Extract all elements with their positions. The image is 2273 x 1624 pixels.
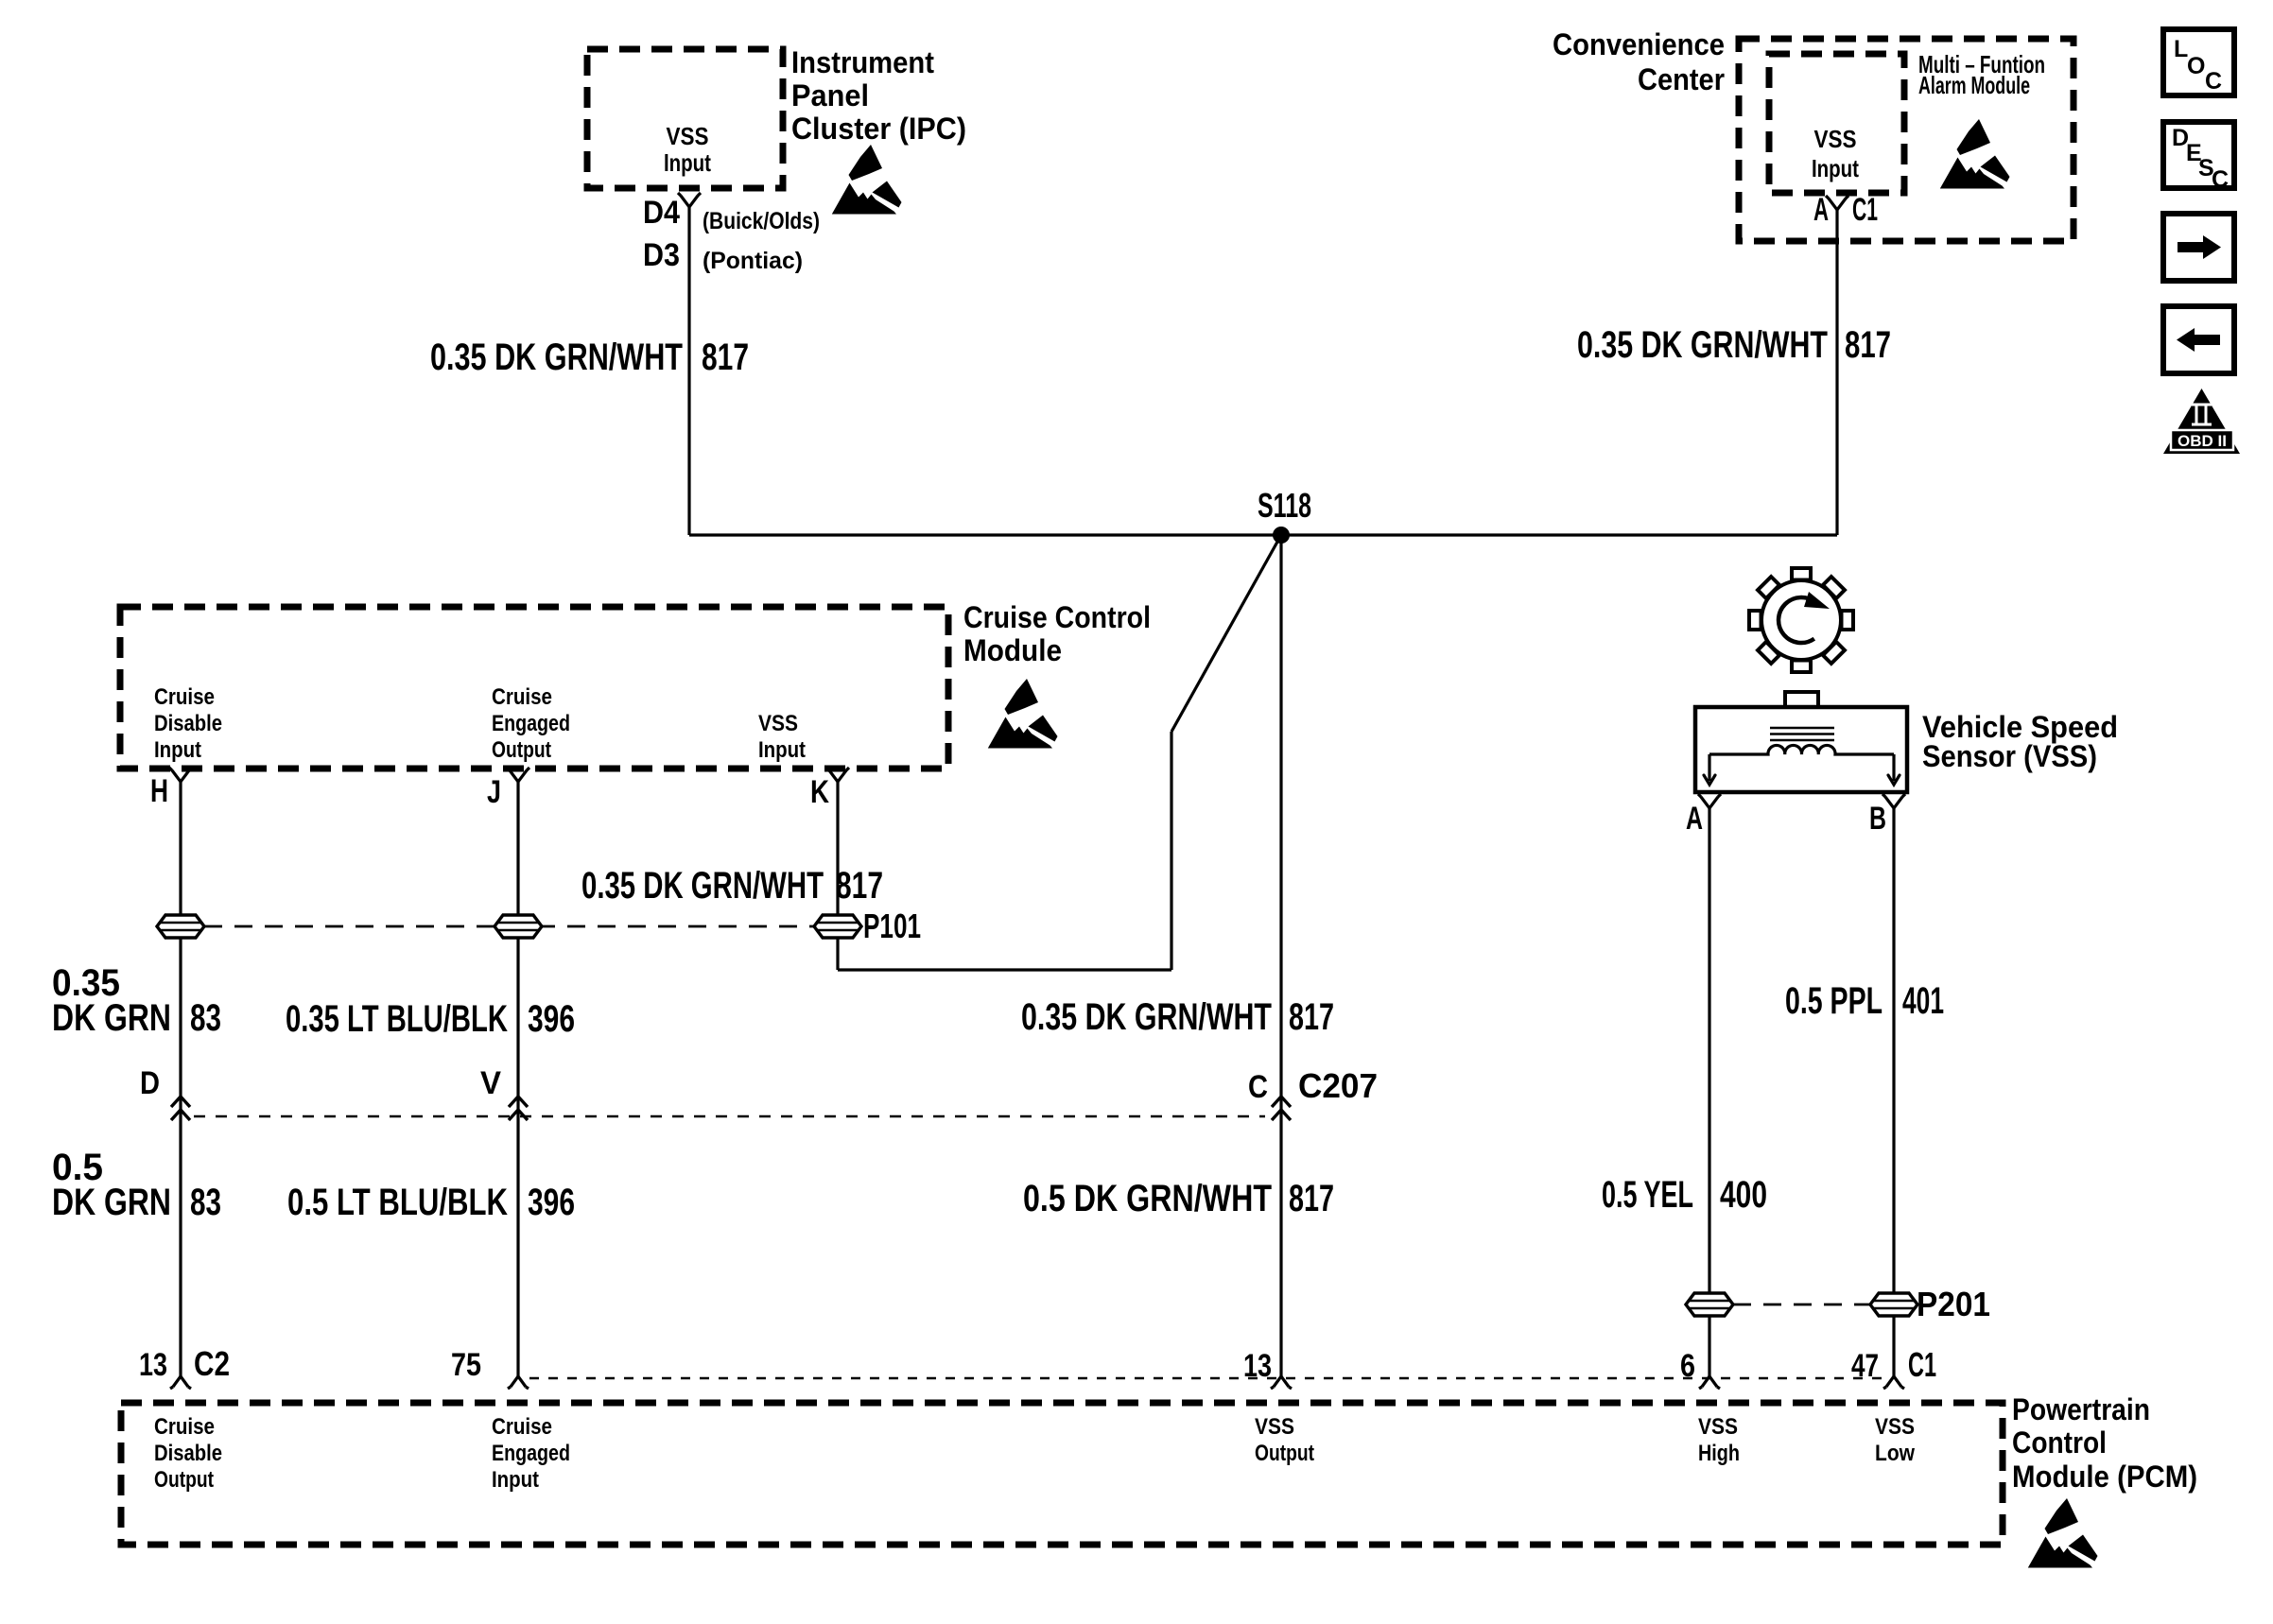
svg-text:Powertrain: Powertrain <box>2012 1392 2150 1426</box>
wire: convenience center pin A down to bus <box>1835 210 1838 535</box>
coil of VSS <box>1709 745 1894 754</box>
node: splice S118 <box>1273 527 1290 544</box>
svg-text:C207: C207 <box>1298 1066 1378 1105</box>
wire label: 0.35 DK GRN/WHT 817 (right) <box>1577 324 1891 366</box>
legend icon: OBD II triangle <box>2163 389 2240 454</box>
svg-text:0.5 DK GRN/WHT: 0.5 DK GRN/WHT <box>1023 1178 1272 1219</box>
svg-text:C1: C1 <box>1908 1345 1936 1384</box>
svg-text:C1: C1 <box>1852 192 1878 228</box>
wire: VSS A column (VSS high) <box>1708 808 1710 1376</box>
connector P201 at A <box>1686 1293 1733 1316</box>
wire: vertical riser of cruise VSS branch <box>1170 732 1172 970</box>
svg-text:83: 83 <box>190 1182 221 1223</box>
svg-text:75: 75 <box>451 1347 481 1383</box>
svg-text:P201: P201 <box>1917 1285 1990 1323</box>
connector P201 at B <box>1870 1293 1917 1316</box>
title: Cruise Control Module <box>963 600 1151 667</box>
svg-text:Center: Center <box>1638 62 1725 96</box>
pin K of cruise module <box>826 768 849 782</box>
esd symbol: IPC <box>832 145 902 215</box>
label: VSS Output <box>1255 1414 1314 1466</box>
svg-text:Input: Input <box>758 737 806 763</box>
svg-text:396: 396 <box>528 998 575 1040</box>
svg-text:Cruise: Cruise <box>154 1414 215 1440</box>
svg-text:C2: C2 <box>194 1344 230 1383</box>
svg-text:V: V <box>480 1065 501 1101</box>
pin B of VSS <box>1883 794 1905 808</box>
svg-text:D3: D3 <box>643 237 680 273</box>
pin 75 of PCM <box>508 1376 529 1389</box>
stem between gear and VSS sensor body <box>1785 692 1818 711</box>
wire: H column (cruise disable) <box>179 782 182 1376</box>
label: IPC VSS Input <box>664 122 711 177</box>
svg-text:Output: Output <box>1255 1441 1314 1466</box>
svg-text:Input: Input <box>154 737 201 763</box>
title: Multi-Funtion Alarm Module <box>1918 50 2045 99</box>
svg-text:0.35 LT BLU/BLK: 0.35 LT BLU/BLK <box>286 998 508 1040</box>
svg-text:Input: Input <box>664 148 711 177</box>
svg-text:P101: P101 <box>863 907 921 945</box>
label: Cruise Disable Output <box>154 1414 222 1493</box>
pin D4 of IPC <box>678 193 701 207</box>
svg-text:D: D <box>140 1065 160 1101</box>
label: cruise VSS Input <box>758 711 806 763</box>
svg-text:817: 817 <box>836 865 883 907</box>
title: Convenience Center <box>1553 27 1725 96</box>
svg-text:VSS: VSS <box>1698 1414 1738 1440</box>
svg-text:0.5 YEL: 0.5 YEL <box>1602 1174 1693 1216</box>
pin 13 of PCM (VSS output) <box>1271 1376 1292 1389</box>
esd symbol: cruise control module <box>988 679 1058 749</box>
svg-text:Control: Control <box>2012 1425 2107 1460</box>
svg-text:VSS: VSS <box>758 711 798 736</box>
svg-text:DK GRN: DK GRN <box>52 1182 171 1223</box>
esd symbol: alarm module <box>1940 119 2010 189</box>
connector C207 chevrons at C <box>1272 1097 1291 1120</box>
wire label: 0.35 DK GRN/WHT 817 (left) <box>430 337 749 378</box>
svg-text:K: K <box>810 774 829 810</box>
svg-text:Panel: Panel <box>791 78 869 112</box>
svg-text:401: 401 <box>1902 980 1944 1022</box>
title: Vehicle Speed Sensor (VSS) <box>1922 710 2118 773</box>
label: Cruise Engaged Input <box>492 1414 570 1493</box>
wire label: 0.5 YEL 400 <box>1602 1174 1767 1216</box>
pin 13 C2 of PCM <box>170 1376 191 1389</box>
svg-text:DK GRN: DK GRN <box>52 997 171 1039</box>
svg-text:Cluster (IPC): Cluster (IPC) <box>791 112 966 146</box>
label: Cruise Engaged Output <box>492 684 570 763</box>
svg-text:Instrument: Instrument <box>791 45 934 79</box>
svg-text:Cruise: Cruise <box>492 684 552 710</box>
VSS internal lead B with arrow <box>1888 754 1900 785</box>
svg-text:0.35 DK GRN/WHT: 0.35 DK GRN/WHT <box>581 865 824 907</box>
title: Instrument Panel Cluster (IPC) <box>791 45 966 146</box>
label: Conv VSS Input <box>1812 125 1859 182</box>
wire: K column (cruise VSS input) <box>836 782 839 970</box>
svg-text:13: 13 <box>1243 1348 1272 1384</box>
wire label: 0.35 DK GRN/WHT 817 (at P101) <box>581 865 883 907</box>
svg-text:817: 817 <box>702 337 749 378</box>
svg-text:D4: D4 <box>643 195 680 231</box>
svg-text:0.35 DK GRN/WHT: 0.35 DK GRN/WHT <box>430 337 683 378</box>
wire: S118 down to C207 and PCM <box>1279 535 1282 1376</box>
dashed link: P201 pass-through row <box>1733 1304 1870 1306</box>
connector P101 at K <box>814 915 861 938</box>
svg-text:Cruise: Cruise <box>154 684 215 710</box>
svg-text:OBD II: OBD II <box>2178 432 2227 450</box>
label: VSS High <box>1698 1414 1740 1466</box>
connector row C207: dashed line <box>194 1115 1265 1118</box>
svg-text:H: H <box>150 773 168 809</box>
svg-text:817: 817 <box>1289 996 1334 1038</box>
wire: horizontal bus between IPC and convenience center <box>689 533 1837 536</box>
dashed line: PCM connector row <box>529 1377 1882 1379</box>
svg-text:Disable: Disable <box>154 711 222 736</box>
svg-text:J: J <box>487 774 501 810</box>
svg-text:Convenience: Convenience <box>1553 27 1725 61</box>
legend icon: LOC box <box>2163 29 2234 95</box>
label: Cruise Disable Input <box>154 684 222 763</box>
wire label: 0.35 DK GRN 83 (two lines) <box>52 962 221 1039</box>
svg-text:396: 396 <box>528 1182 575 1223</box>
legend icon: DESC box <box>2163 122 2234 193</box>
svg-text:Disable: Disable <box>154 1441 222 1466</box>
module box: Convenience Center (outer) <box>1739 39 2073 241</box>
svg-text:Output: Output <box>492 737 551 763</box>
svg-text:(Pontiac): (Pontiac) <box>703 248 803 274</box>
svg-text:C: C <box>1248 1069 1268 1105</box>
wire label: 0.5 LT BLU/BLK 396 <box>287 1182 575 1223</box>
connector P101 at J <box>495 915 542 938</box>
svg-text:A: A <box>1686 801 1703 837</box>
module box: Cruise Control Module <box>120 607 948 769</box>
module box: Multi-Function Alarm Module VSS Input (inner) <box>1769 54 1904 193</box>
wire label: 0.35 DK GRN/WHT 817 (above C207) <box>1021 996 1334 1038</box>
svg-text:C: C <box>2212 166 2229 193</box>
connector C207 chevrons at V <box>509 1097 528 1120</box>
pin H of cruise module <box>169 768 192 782</box>
svg-text:O: O <box>2187 53 2205 79</box>
pin 47 C1 of PCM <box>1883 1376 1904 1389</box>
label: VSS Low <box>1875 1414 1915 1466</box>
wire label: 0.5 DK GRN 83 (two lines) <box>52 1147 221 1223</box>
svg-text:Input: Input <box>492 1467 539 1493</box>
connector C207 chevrons at D <box>171 1097 190 1120</box>
svg-text:83: 83 <box>190 997 221 1039</box>
svg-text:A: A <box>1813 192 1829 228</box>
svg-text:0.5 LT BLU/BLK: 0.5 LT BLU/BLK <box>287 1182 508 1223</box>
svg-text:817: 817 <box>1289 1178 1334 1219</box>
svg-text:400: 400 <box>1720 1174 1767 1216</box>
svg-text:Input: Input <box>1812 154 1859 182</box>
connector P101 at H <box>157 915 204 938</box>
module box: Instrument Panel Cluster (IPC) <box>587 49 783 188</box>
esd symbol: PCM <box>2028 1498 2098 1568</box>
component box: Vehicle Speed Sensor <box>1695 707 1907 792</box>
svg-text:B: B <box>1869 801 1886 837</box>
wire label: 0.5 PPL 401 <box>1785 980 1944 1022</box>
svg-text:High: High <box>1698 1441 1740 1466</box>
svg-text:VSS: VSS <box>1814 125 1857 153</box>
svg-text:Engaged: Engaged <box>492 1441 570 1466</box>
legend icon: arrow right box <box>2163 214 2234 281</box>
wire: horizontal jog from K column to riser <box>838 968 1171 971</box>
module box: Powertrain Control Module (PCM) <box>121 1403 2003 1545</box>
pin 6 of PCM <box>1699 1376 1720 1389</box>
svg-text:S118: S118 <box>1258 486 1311 525</box>
svg-text:Low: Low <box>1875 1441 1915 1466</box>
pin A of VSS <box>1698 794 1721 808</box>
svg-text:Alarm Module: Alarm Module <box>1918 71 2030 99</box>
svg-text:Engaged: Engaged <box>492 711 570 736</box>
VSS internal lead A with arrow <box>1704 754 1715 785</box>
svg-text:VSS: VSS <box>1255 1414 1294 1440</box>
core lines of VSS <box>1770 728 1834 740</box>
wire: VSS B column (VSS low) <box>1892 808 1895 1376</box>
pin A of convenience center <box>1826 196 1848 210</box>
svg-text:Sensor (VSS): Sensor (VSS) <box>1922 739 2097 773</box>
svg-text:13: 13 <box>139 1347 167 1383</box>
reluctor gear icon of VSS <box>1749 568 1853 672</box>
pin J of cruise module <box>507 768 529 782</box>
dashed link: P101 pass-through row <box>204 925 814 928</box>
svg-text:47: 47 <box>1851 1348 1879 1384</box>
svg-text:Cruise: Cruise <box>492 1414 552 1440</box>
svg-text:C: C <box>2205 68 2222 95</box>
svg-text:Module: Module <box>963 633 1062 667</box>
svg-text:VSS: VSS <box>1875 1414 1915 1440</box>
svg-text:Cruise Control: Cruise Control <box>963 600 1151 634</box>
svg-text:6: 6 <box>1680 1348 1695 1384</box>
svg-text:(Buick/Olds): (Buick/Olds) <box>703 208 820 234</box>
wire label: 0.35 LT BLU/BLK 396 <box>286 998 575 1040</box>
svg-text:VSS: VSS <box>667 122 709 150</box>
svg-text:L: L <box>2174 36 2188 62</box>
wire: diagonal from S118 to cruise VSS branch <box>1171 535 1281 732</box>
svg-text:817: 817 <box>1845 324 1891 366</box>
legend icon: arrow left box <box>2163 306 2234 373</box>
wire label: 0.5 DK GRN/WHT 817 (below C207) <box>1023 1178 1334 1219</box>
svg-text:Output: Output <box>154 1467 214 1493</box>
svg-text:Module (PCM): Module (PCM) <box>2012 1460 2197 1494</box>
wire: IPC pin D4 down to bus <box>687 207 690 535</box>
wire: J column (cruise engaged) <box>516 782 519 1376</box>
svg-text:0.35 DK GRN/WHT: 0.35 DK GRN/WHT <box>1021 996 1272 1038</box>
title: Powertrain Control Module (PCM) <box>2012 1392 2197 1494</box>
svg-text:0.35 DK GRN/WHT: 0.35 DK GRN/WHT <box>1577 324 1828 366</box>
svg-text:0.5 PPL: 0.5 PPL <box>1785 980 1883 1022</box>
